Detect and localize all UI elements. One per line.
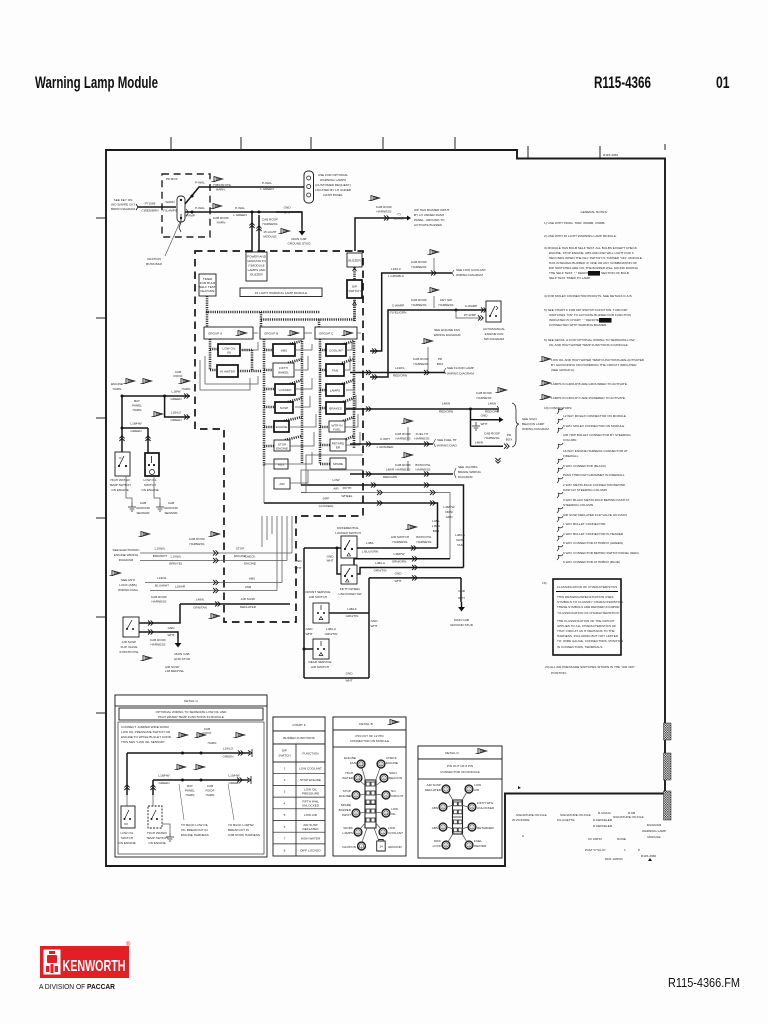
high water temp switch [115,452,130,476]
group B lamp box engine [274,421,289,432]
chart F data rows [273,767,325,853]
svg-text:FUEL HT: FUEL HT [416,432,429,436]
svg-text:GND: GND [168,626,176,630]
svg-text:CONNECTOR ON MODULE: CONNECTOR ON MODULE [350,739,389,743]
svg-text:L48 RED/YEL: L48 RED/YEL [165,669,185,673]
svg-text:BLACK: BLACK [394,217,405,221]
wire P-WAL L GREEN to module [233,206,302,217]
detail G low oil switch [121,806,135,828]
svg-text:HARNESS: HARNESS [415,437,430,441]
svg-text:LOW OIL: LOW OIL [144,478,157,482]
svg-text:AIR TRIP BULLET CONNECTOR BY S: AIR TRIP BULLET CONNECTOR BY STEERING [563,433,631,437]
svg-text:CAB: CAB [207,784,213,788]
svg-text:GROUND: GROUND [388,845,403,849]
svg-text:CAB ROOF: CAB ROOF [411,298,427,302]
svg-text:HARNESS: HARNESS [377,210,392,214]
svg-text:5) SEE CHART F FOR DIP SWITCH: 5) SEE CHART F FOR DIP SWITCH FUNCTION. … [544,308,627,312]
svg-text:PRESSURE: PRESSURE [302,792,319,796]
svg-text:DIP SWITCHES ARE ON, THE BUZZE: DIP SWITCHES ARE ON, THE BUZZER WILL SOU… [549,266,639,270]
svg-text:C-WARP: C-WARP [465,304,477,308]
svg-text:ENGINE TO WH/LE BULLET CONN.: ENGINE TO WH/LE BULLET CONN. [121,735,172,739]
svg-text:LAMPS: LAMPS [330,389,341,393]
svg-text:HAS INTEGRAL BUZZER. IF ONE OR: HAS INTEGRAL BUZZER. IF ONE OR ANY COMBI… [549,261,637,265]
svg-text:2 WAY BULLET CONNECTOR IN HEAD: 2 WAY BULLET CONNECTOR IN HEADER [563,532,624,536]
rear service air switch label [309,660,332,669]
svg-text:ACTIVATE BUZZER: ACTIVATE BUZZER [414,223,443,227]
svg-text:(CUSTOMER REQUEST): (CUSTOMER REQUEST) [315,183,351,187]
note: use for optional warning lamps [315,173,352,197]
svg-text:CLASSIFICATION OF CHARACTERIST: CLASSIFICATION OF CHARACTERISTICS [557,585,617,589]
group B lamp box abs2 [274,459,288,469]
svg-text:PANEL: PANEL [185,789,195,793]
svg-text:OPTIONAL WIRING TO SEPARATE LO: OPTIONAL WIRING TO SEPARATE LOW OIL AND [156,710,227,714]
note see engine fan wiring diagram [434,328,461,337]
svg-text:PANEL. GROUND TO: PANEL. GROUND TO [414,218,445,222]
note 8 flag [540,381,628,387]
note 6 [544,338,634,347]
group C lamp box retarder [330,439,346,451]
chart F header row [273,744,325,856]
svg-text:1: 1 [361,845,363,849]
svg-text:01: 01 [716,74,730,92]
wire L48/LA row [354,552,450,565]
wire L48/LA grn tan row [357,561,464,574]
svg-text:(*)RED/BRN: (*)RED/BRN [141,209,158,213]
svg-text:BY LH UNDER DASH: BY LH UNDER DASH [414,213,444,217]
svg-text:P71068: P71068 [145,202,156,206]
svg-text:L19/WL: L19/WL [171,555,182,559]
main hatched bus runs [206,296,355,327]
wire low coolant row [370,267,452,354]
svg-text:CAB ROOF: CAB ROOF [413,357,429,361]
svg-text:L48/LA: L48/LA [455,533,466,537]
svg-text:GND: GND [481,414,489,418]
note 1 [544,221,605,225]
svg-text:L48/LA: L48/LA [375,561,386,565]
svg-text:L48/PW: L48/PW [393,552,404,556]
svg-text:AIR SUSP: AIR SUSP [427,783,441,787]
air susp flip valve box [123,617,139,637]
svg-text:HARNESS: HARNESS [439,303,454,307]
svg-text:D.KEFFELER: D.KEFFELER [593,818,613,822]
svg-text:6 WAY CONNECTOR AT PDBOX (BLUE: 6 WAY CONNECTOR AT PDBOX (BLUE) [563,560,620,564]
svg-text:3: 3 [284,790,286,794]
svg-text:GND: GND [306,627,314,631]
detail B ignition wire [0,0,1,1]
label L48/L stack [432,519,440,533]
svg-text:SWITCH: SWITCH [121,836,133,840]
svg-text:FIFTH WHEEL: FIFTH WHEEL [340,587,361,591]
group C bus right [342,341,354,448]
svg-text:SECONDS WHEN THE KEY SWITCH IS: SECONDS WHEN THE KEY SWITCH IS TURNED "O… [549,256,642,260]
svg-text:CAB ROOF: CAB ROOF [213,216,229,220]
svg-text:DIAGRAM: DIAGRAM [647,823,662,827]
svg-text:L48/N: L48/N [488,402,496,406]
detail G switch wires [124,785,155,806]
svg-text:RED/GRN: RED/GRN [383,475,397,479]
label L48/LA stack [455,533,466,547]
svg-text:CAB ROOF: CAB ROOF [395,463,411,467]
svg-text:ABS: ABS [249,577,255,581]
svg-text:HARNESS: HARNESS [263,222,278,226]
wire asr row [150,585,277,594]
svg-text:6: 6 [383,777,385,781]
svg-text:3: 3 [468,844,470,848]
svg-text:ORN/GRN: ORN/GRN [392,560,407,564]
svg-text:SECTION OF BULB: SECTION OF BULB [601,271,629,275]
group B lamp box stop engine [274,440,290,451]
svg-text:GREEN: GREEN [170,397,181,401]
border tick marks left [96,218,106,713]
note 10 heading [544,406,572,410]
svg-text:CAB ROOF: CAB ROOF [376,205,392,209]
group B lamp box diff locked [275,384,295,395]
svg-text:LOW AIR: LOW AIR [304,813,318,817]
svg-text:INDICATED IN CHART. " ": INDICATED IN CHART. " " DENOTES [549,318,601,322]
wires to cab ground sensors [126,476,160,503]
fifth wheel unlocked sw label [338,587,361,596]
svg-text:IGNITION: IGNITION [342,845,356,849]
border zone marker blocks right [664,723,672,820]
svg-text:(*)YEL/GRN: (*)YEL/GRN [390,311,407,315]
header document number [594,74,651,92]
bus below dip switch [353,298,357,322]
svg-text:ENGINE HARNESS: ENGINE HARNESS [181,833,209,837]
svg-text:(*)MODULE: (*)MODULE [248,264,265,268]
svg-text:(*): (*) [397,212,400,216]
svg-text:FAN: FAN [332,369,338,373]
svg-text:PD: PD [438,357,443,361]
svg-text:SUSP: SUSP [280,406,288,410]
wire P-WAL upper branch [185,181,305,205]
svg-text:GROUND TO: GROUND TO [247,259,266,263]
svg-text:CAB ROOF: CAB ROOF [189,537,205,541]
svg-text:HARN: HARN [216,188,225,192]
svg-text:®: ® [126,941,131,948]
svg-text:P-WAL: P-WAL [262,181,272,185]
svg-text:C-WPT: C-WPT [380,437,390,441]
svg-text:GND: GND [295,559,303,563]
svg-text:GENERAL NOTES:: GENERAL NOTES: [580,210,607,214]
PD box (dashed) [162,174,210,237]
svg-text:(*)BSTR PNL: (*)BSTR PNL [213,183,232,187]
detail B box [333,717,406,856]
detail B connector body [365,780,376,828]
svg-text:Warning Lamp Module: Warning Lamp Module [35,74,158,92]
svg-text:AIR SUSP: AIR SUSP [122,640,136,644]
detail G callout 1 [179,784,209,837]
svg-text:ON ENGINE: ON ENGINE [148,841,165,845]
detail D box [418,746,502,858]
svg-text:R115-4366: R115-4366 [594,74,651,92]
label bat panel harn [132,399,142,412]
svg-text:GRN/TIN: GRN/TIN [325,632,338,636]
svg-text:INPUT: INPUT [342,813,351,817]
svg-text:SENSOR: SENSOR [136,511,150,515]
group B bus [264,339,275,466]
wires from flip valve [139,604,180,638]
svg-text:POSITION.: POSITION. [551,671,567,675]
svg-text:SELF TEST TIMER TO LAMP.: SELF TEST TIMER TO LAMP. [549,276,591,280]
group C lamp box fan [326,364,344,376]
svg-text:FUEL: FUEL [474,839,482,843]
wire jacobs brake row [350,468,453,480]
border tick marks top [171,137,600,159]
svg-text:SW DIAGRAM: SW DIAGRAM [484,337,505,341]
chart F subtitle row [273,731,325,744]
note: use key on wire ckt brkr diagram [111,198,136,211]
svg-text:L GRN/RED: L GRN/RED [377,445,394,449]
svg-text:AIR SWITCH: AIR SWITCH [311,665,329,669]
svg-text:WIRING DIAGRAM: WIRING DIAGRAM [434,333,461,337]
svg-text:GRN/: GRN/ [456,538,464,542]
svg-text:L GRN/BLK: L GRN/BLK [388,274,405,278]
svg-text:THE CLASSIFICATION OF THE CIRC: THE CLASSIFICATION OF THE CIRCUIT [557,619,615,623]
svg-text:R115-4366: R115-4366 [641,854,656,858]
svg-text:L48/K: L48/K [196,598,205,602]
flag air switch harness [391,525,432,545]
svg-text:FIFTH: FIFTH [279,366,288,370]
svg-text:HARN: HARN [206,793,215,797]
svg-text:CAB ROOF: CAB ROOF [262,218,278,222]
group C lamp box coolant [326,344,346,356]
svg-text:L48/LA: L48/LA [326,627,337,631]
svg-text:HARN: HARN [133,408,142,412]
group B bus right [284,341,302,463]
svg-text:ASR: ASR [245,585,252,589]
svg-text:ENGINE, STOP ENGINE, ABS AND A: ENGINE, STOP ENGINE, ABS AND ASR WILL LI… [549,251,634,255]
svg-text:SEE ENGINE FAN: SEE ENGINE FAN [434,328,460,332]
main schematic border [106,150,665,866]
svg-text:CAB ROOF: CAB ROOF [484,432,500,436]
flag cab roof harness (flip valve) [141,638,185,673]
group B header box [260,327,304,339]
svg-text:BUZZER: BUZZER [250,273,263,277]
optional warning lamps connector [304,171,314,203]
svg-text:ENGINE FAN: ENGINE FAN [485,332,504,336]
svg-text:GND: GND [458,589,466,593]
svg-text:PT-WRP: PT-WRP [464,313,476,317]
wire engine fan row [370,304,486,380]
svg-text:6: 6 [442,806,444,810]
svg-text:DEFLATED: DEFLATED [303,827,320,831]
svg-text:SEE ELECTRONIC: SEE ELECTRONIC [113,548,141,552]
svg-text:BY GROUNDING OR POWERING THE C: BY GROUNDING OR POWERING THE CIRCUIT IND… [551,363,637,367]
footer file name [668,975,740,990]
wire L18/LO branch [165,396,190,422]
wire sign beacon top row [346,402,499,414]
svg-text:CAB ROOF HARNESS: CAB ROOF HARNESS [228,833,260,837]
svg-text:ROOF: ROOF [203,731,212,735]
svg-text:M.LAGETTE: M.LAGETTE [557,818,575,822]
svg-text:R115-4366: R115-4366 [603,153,618,157]
svg-text:2: 2 [284,778,286,782]
note see anti lock wiring diag [118,578,139,592]
chart F table frame [273,717,325,856]
detail B pins left [339,756,367,850]
svg-text:HARN: HARN [186,793,195,797]
svg-text:MAIN CAB: MAIN CAB [175,652,190,656]
svg-text:HARNESS: HARNESS [485,436,500,440]
circuit breaker F71068 in PD box [163,196,185,232]
svg-text:DETAIL D: DETAIL D [445,751,459,755]
flag cab roof harness (buzzer) [369,196,393,214]
svg-text:THESE SYMBOLS ARE DEFINED IN D: THESE SYMBOLS ARE DEFINED IN DM500 [557,605,620,609]
wire low air row [301,478,464,568]
border label R115-4366 [603,153,618,157]
svg-text:MAIN CAB: MAIN CAB [292,237,307,241]
note see jacobs brake wiring diagram [454,465,481,479]
svg-text:HARNESS, INCLUDING BUT NOT LIM: HARNESS, INCLUDING BUT NOT LIMITED [557,634,619,638]
svg-text:10: 10 [356,777,360,781]
svg-text:RED/ORN: RED/ORN [439,410,453,414]
svg-text:ABS: ABS [278,463,284,467]
svg-text:4: 4 [284,802,286,806]
wires down to engine switches [119,428,150,453]
svg-text:LOCK (ABS): LOCK (ABS) [119,583,137,587]
svg-text:3: 3 [382,831,384,835]
svg-text:BREAKOUT IN: BREAKOUT IN [228,828,249,832]
svg-text:ENGINE: ENGINE [344,756,356,760]
svg-text:2 WAY METRI-PACK CONNECTOR BEH: 2 WAY METRI-PACK CONNECTOR BEHIND [563,483,626,487]
svg-text:FIFTH WHL: FIFTH WHL [477,801,494,805]
svg-text:DIP: DIP [282,749,287,753]
svg-text:STOP: STOP [236,547,244,551]
svg-text:4: 4 [471,806,473,810]
svg-text:WHT: WHT [370,624,377,628]
detail D pins right [461,783,495,849]
svg-text:(NO.5)WIRE CKT: (NO.5)WIRE CKT [111,203,136,207]
svg-text:8: 8 [445,844,447,848]
svg-text:BAT: BAT [134,399,140,403]
svg-text:GREEN: GREEN [158,781,169,785]
note 20 [545,665,635,675]
svg-text:PIN OUT OF 8 PIN: PIN OUT OF 8 PIN [447,764,473,768]
svg-text:A: A [522,834,525,838]
page header title [35,74,158,92]
svg-text:WHT: WHT [480,422,487,426]
svg-text:8: 8 [355,812,357,816]
svg-text:L19/AL: L19/AL [157,576,167,580]
svg-text:HI WATER: HI WATER [220,370,236,374]
svg-text:L48/LF: L48/LF [347,607,357,611]
svg-text:9: 9 [355,794,357,798]
svg-text:DEFLATED: DEFLATED [425,788,442,792]
svg-text:WORK: WORK [343,826,354,830]
svg-text:APPLIES TO ALL CHARACTERISTICS: APPLIES TO ALL CHARACTERISTICS OF [557,624,616,628]
svg-text:WHT: WHT [458,596,465,600]
svg-text:DIFF LOCKED: DIFF LOCKED [300,849,321,853]
svg-text:OIL: OIL [391,812,396,816]
svg-text:L19/WL: L19/WL [155,547,166,551]
power and ground box [246,252,267,281]
detail G harness labels [185,784,215,797]
svg-text:FIREWALL: FIREWALL [563,454,579,458]
svg-text:12 WAY MOLEX CONNECTOR ON MODU: 12 WAY MOLEX CONNECTOR ON MODULE [563,414,626,418]
svg-text:CHART F: CHART F [292,723,305,727]
svg-text:1: 1 [471,826,473,830]
svg-text:ABS: ABS [432,806,438,810]
svg-text:(LOCKED): (LOCKED) [319,504,334,508]
svg-text:BSTR PNL: BSTR PNL [415,463,430,467]
note 7 flag [540,357,645,373]
svg-text:HARNESS: HARNESS [151,643,166,647]
wire gnd bottom run [304,672,369,683]
svg-text:BEACON: BEACON [389,776,402,780]
fifth wheel unlocked switch [341,565,357,584]
svg-text:WATER: WATER [342,776,354,780]
svg-text:MAIN CAB: MAIN CAB [454,618,469,622]
note see fuel ht wiring diag [434,438,458,448]
svg-text:ORN/: ORN/ [445,510,453,514]
svg-text:L48/R: L48/R [386,468,395,472]
svg-text:L48/L: L48/L [366,541,374,545]
svg-text:DIAGRAM: DIAGRAM [458,475,473,479]
wire gnd wht row [369,572,461,584]
svg-text:C-WARP: C-WARP [392,304,404,308]
flag bstr pnl harn (upper) [212,177,232,192]
Kenworth logo red box [40,941,131,978]
svg-text:13: 13 [384,812,388,816]
svg-text:HARN: HARN [113,387,122,391]
svg-text:1) USE WITH T600A, T800, W900: 1) USE WITH T600A, T800, W900B, C500B. [544,221,605,225]
svg-text:11: 11 [379,763,382,767]
svg-text:L48/N: L48/N [475,441,483,445]
svg-text:FUNCTION: FUNCTION [303,752,319,756]
note 2 [544,234,617,238]
group C lamp box brakes [326,402,345,414]
svg-text:DIFFERENTIAL: DIFFERENTIAL [337,526,359,530]
svg-text:WARN: WARN [165,200,174,204]
svg-text:THE SELF TEST. " " DENO: THE SELF TEST. " " DENOTES [549,271,593,275]
svg-text:A DIVISION OF PACCAR: A DIVISION OF PACCAR [39,982,115,991]
svg-text:STEERING COLUMN: STEERING COLUMN [563,503,593,507]
svg-text:ENGINE: ENGINE [276,447,288,451]
wire abs row [145,576,282,588]
detail G grounds [162,824,174,841]
svg-text:GND: GND [395,572,403,576]
low oil switch [145,453,159,476]
svg-text:SENSOR: SENSOR [164,511,178,515]
module internal gray wiring loops [200,333,361,483]
detail G wire row1 [127,747,252,796]
svg-text:L18/HW: L18/HW [158,774,169,778]
svg-text:WIRING DIAG: WIRING DIAG [437,444,458,448]
rear service air switch [303,639,330,659]
svg-text:STOP: STOP [343,789,351,793]
svg-text:GROUP A: GROUP A [208,332,223,336]
svg-text:SWITCH: SWITCH [278,754,290,758]
svg-text:CHECK: CHECK [386,756,398,760]
group C header box [315,327,357,339]
group C lamp box water [329,421,345,432]
svg-text:L18/LO: L18/LO [171,411,182,415]
svg-text:SIGNATURE ON FILE: SIGNATURE ON FILE [560,813,591,817]
svg-text:BUZZER: BUZZER [339,808,352,812]
main cab ground stud (top) [287,226,311,246]
svg-text:STOP ENGINE: STOP ENGINE [300,778,321,782]
svg-text:SEE ANTI: SEE ANTI [121,578,135,582]
svg-text:R.CRAIG: R.CRAIG [598,811,611,815]
wire sign beacon bottom row [471,432,513,449]
svg-text:BLU/WHT: BLU/WHT [155,584,169,588]
svg-text:UNLOCKED: UNLOCKED [302,804,320,808]
svg-text:LOW OIL PRESSURE SWITCH ON: LOW OIL PRESSURE SWITCH ON [121,730,170,734]
svg-text:LOW OIL AND HIGH WATER TEMP FU: LOW OIL AND HIGH WATER TEMP FUNCTIONS AR… [551,358,645,362]
detail D pins left [425,783,454,849]
svg-text:LOW OIL: LOW OIL [121,831,134,835]
svg-text:WARNING LAMPS: WARNING LAMPS [320,178,346,182]
